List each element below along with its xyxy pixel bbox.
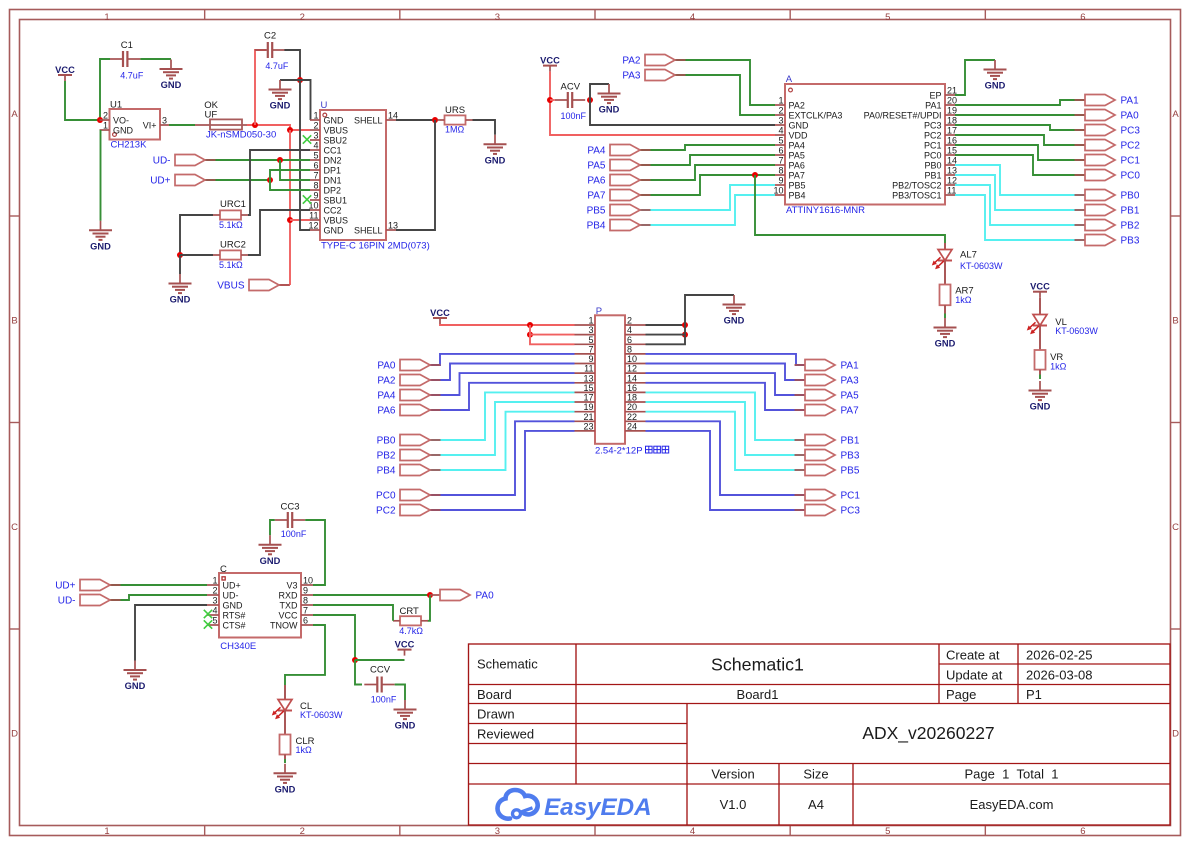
svg-text:RXD: RXD xyxy=(278,591,298,601)
A pin 13 PB1 xyxy=(924,166,957,181)
net port PC1 right of P xyxy=(795,490,861,502)
A pin 19 PA0/RESET#/UPDI xyxy=(864,106,957,121)
svg-text:PA5: PA5 xyxy=(587,161,606,172)
ground GND at C2 xyxy=(269,80,292,111)
wire GND node to ground xyxy=(280,79,300,81)
ground GND at CCV xyxy=(394,700,417,731)
power flag VCC at P header xyxy=(430,308,450,324)
C pin1 mark xyxy=(222,577,225,580)
svg-text:8: 8 xyxy=(627,344,632,354)
svg-text:PA2: PA2 xyxy=(377,376,396,387)
net port PB4 input xyxy=(587,220,651,232)
svg-text:PA1: PA1 xyxy=(925,101,941,111)
svg-text:P1: P1 xyxy=(1026,687,1042,702)
A pin 15 PC0 xyxy=(924,146,957,161)
svg-text:7: 7 xyxy=(313,171,318,181)
svg-text:17: 17 xyxy=(947,126,957,136)
P pin 6 xyxy=(625,335,646,345)
ground GND at U1 pin1 xyxy=(89,221,112,252)
svg-text:UD+: UD+ xyxy=(223,581,241,591)
svg-text:1: 1 xyxy=(104,826,109,837)
net port PB1 output xyxy=(1075,205,1140,217)
U1 pin 2 VO- xyxy=(100,111,130,126)
P pin 16 xyxy=(625,383,646,393)
wire PB4 to P pin 19 xyxy=(430,412,575,470)
power flag VCC at CH340E xyxy=(395,639,415,655)
svg-text:C: C xyxy=(1172,522,1179,533)
resistor URC2 5.1k xyxy=(213,240,248,270)
wire URS to GND xyxy=(473,120,496,135)
svg-text:17: 17 xyxy=(583,393,593,403)
net port UD- at CH340E xyxy=(58,595,121,607)
junction VCC at ACV xyxy=(547,97,553,103)
P pin 24 xyxy=(625,421,646,431)
svg-text:6: 6 xyxy=(627,335,632,345)
ground GND at CLR xyxy=(274,764,297,795)
svg-text:3: 3 xyxy=(212,596,217,606)
svg-text:2: 2 xyxy=(103,111,108,121)
led CL KT-0603W xyxy=(272,700,343,721)
wire SHELL node down to pin13 xyxy=(396,120,435,230)
svg-text:22: 22 xyxy=(627,412,637,422)
wire PA5 to A pin6 xyxy=(640,155,775,165)
svg-text:1kΩ: 1kΩ xyxy=(296,745,313,755)
svg-text:SBU2: SBU2 xyxy=(324,136,348,146)
resistor VR 1k xyxy=(1035,350,1067,371)
resistor URS 1M xyxy=(438,105,473,135)
wire C2 to GND node xyxy=(284,50,300,80)
wire VR gnd green bit xyxy=(1039,375,1041,380)
wire PC0 to P pin 21 xyxy=(430,421,575,495)
svg-text:1kΩ: 1kΩ xyxy=(955,295,972,305)
wire UD- to U pin5 DN2 xyxy=(205,159,310,161)
U pin 11 VBUS xyxy=(309,211,348,226)
svg-text:13: 13 xyxy=(947,166,957,176)
svg-text:CC2: CC2 xyxy=(324,206,342,216)
wire P pin2 to GND rail xyxy=(646,324,686,326)
svg-text:P: P xyxy=(596,306,602,317)
svg-text:A: A xyxy=(786,74,793,85)
ground GND at A EP xyxy=(984,60,1007,91)
svg-text:PC0: PC0 xyxy=(1121,171,1141,182)
wire PA2 to A pin1 xyxy=(675,60,775,105)
U pin 3 SBU2 xyxy=(310,131,347,146)
svg-text:PC0: PC0 xyxy=(924,151,942,161)
svg-text:VCC: VCC xyxy=(540,55,560,65)
wire PB5 to A pin9 xyxy=(640,185,775,210)
svg-text:PC1: PC1 xyxy=(841,491,861,502)
svg-text:PA0/RESET#/UPDI: PA0/RESET#/UPDI xyxy=(864,111,942,121)
svg-text:TYPE-C 16PIN 2MD(073): TYPE-C 16PIN 2MD(073) xyxy=(321,241,430,252)
U pin 12 GND xyxy=(308,221,344,236)
P pin 3 xyxy=(575,325,596,335)
svg-text:KT-0603W: KT-0603W xyxy=(300,710,343,720)
svg-text:GND: GND xyxy=(125,681,146,691)
svg-text:PC1: PC1 xyxy=(924,141,942,151)
P pin 1 xyxy=(575,316,596,326)
net port PB5 right of P xyxy=(795,465,860,477)
svg-text:PA4: PA4 xyxy=(587,146,606,157)
svg-text:ACV: ACV xyxy=(561,82,581,93)
svg-text:VCC: VCC xyxy=(430,308,450,318)
svg-text:GND: GND xyxy=(275,784,296,794)
P pin 8 xyxy=(625,344,646,354)
junction UD- branch xyxy=(277,157,283,163)
svg-text:U1: U1 xyxy=(110,100,122,111)
svg-text:ATTINY1616-MNR: ATTINY1616-MNR xyxy=(786,205,865,216)
svg-text:Version: Version xyxy=(711,767,754,782)
svg-text:6: 6 xyxy=(1080,12,1085,23)
svg-text:7: 7 xyxy=(588,344,593,354)
A pin 10 PB4 xyxy=(773,186,805,201)
svg-text:5: 5 xyxy=(212,616,217,626)
svg-text:2026-02-25: 2026-02-25 xyxy=(1026,648,1093,663)
svg-text:24: 24 xyxy=(627,421,637,431)
wire PA6 to P pin 13 xyxy=(430,383,575,410)
svg-text:PC3: PC3 xyxy=(841,506,861,517)
svg-text:EXTCLK/PA3: EXTCLK/PA3 xyxy=(789,111,843,121)
svg-text:PA6: PA6 xyxy=(789,161,805,171)
svg-text:4.7uF: 4.7uF xyxy=(120,71,144,81)
C pin 4 RTS# xyxy=(207,606,245,621)
svg-text:5: 5 xyxy=(885,826,890,837)
P pin 13 xyxy=(575,373,596,383)
wire U pin10 CC2 to URC2 xyxy=(248,210,310,255)
svg-text:2026-03-08: 2026-03-08 xyxy=(1026,668,1093,683)
svg-text:PB2: PB2 xyxy=(1121,221,1140,232)
svg-text:PC3: PC3 xyxy=(924,121,942,131)
svg-text:PA3: PA3 xyxy=(841,376,860,387)
P pin 22 xyxy=(625,412,646,422)
ground GND at C pin3 xyxy=(124,661,147,692)
ground GND at CC3 xyxy=(259,535,282,566)
net port PA3 input xyxy=(622,70,685,82)
svg-text:PB1: PB1 xyxy=(841,436,860,447)
wire GND node to A pin3 xyxy=(590,100,775,125)
svg-text:19: 19 xyxy=(947,106,957,116)
svg-text:PA7: PA7 xyxy=(587,191,606,202)
svg-text:100nF: 100nF xyxy=(371,695,397,705)
net port PC2 left of P xyxy=(376,505,440,517)
svg-text:B: B xyxy=(1172,315,1178,326)
resistor CRT 4.7k xyxy=(393,606,428,636)
svg-text:KT-0603W: KT-0603W xyxy=(1055,326,1098,336)
ground GND at AR7 xyxy=(934,318,957,349)
net port PA0 output xyxy=(1075,110,1140,122)
wire PA0 node down to CRT xyxy=(428,595,431,621)
svg-text:PA0: PA0 xyxy=(1121,111,1140,122)
svg-text:SBU1: SBU1 xyxy=(324,196,348,206)
wire C pin3 to GND xyxy=(135,605,207,661)
wire PC2 to P pin 23 xyxy=(430,431,575,510)
svg-text:6: 6 xyxy=(1080,826,1085,837)
svg-text:URS: URS xyxy=(445,105,465,116)
svg-text:19: 19 xyxy=(583,402,593,412)
svg-text:PC2: PC2 xyxy=(376,506,396,517)
wire P pin 16 to PB1 xyxy=(646,392,806,440)
svg-text:1: 1 xyxy=(778,96,783,106)
svg-text:5: 5 xyxy=(313,151,318,161)
junction SHELL node xyxy=(432,117,438,123)
wire node VCC up to C1 xyxy=(100,59,110,120)
C pin 5 CTS# xyxy=(207,616,246,631)
wire GND rail to Type-C pin12 xyxy=(300,80,310,230)
svg-text:GND: GND xyxy=(113,126,134,136)
svg-text:VCC: VCC xyxy=(1030,282,1050,292)
junction GND node near C2 xyxy=(297,77,303,83)
svg-text:5: 5 xyxy=(885,12,890,23)
wire AR7 gnd green bit xyxy=(944,314,946,319)
wire U pin4 CC1 to URC1 xyxy=(248,150,310,215)
wire A pin20 to PA1 xyxy=(955,100,1085,105)
svg-text:SHELL: SHELL xyxy=(354,226,383,236)
wire GND node down xyxy=(179,255,181,274)
svg-text:21: 21 xyxy=(583,412,593,422)
junction GND at P pin2 xyxy=(682,322,688,328)
svg-text:CRT: CRT xyxy=(400,606,420,617)
svg-text:GND: GND xyxy=(985,81,1006,91)
svg-text:6: 6 xyxy=(303,616,308,626)
U pin 13 SHELL xyxy=(354,221,398,236)
net port PB1 right of P xyxy=(795,435,860,447)
A pin 5 PA4 xyxy=(775,136,805,151)
junction RXD PA0 node xyxy=(427,592,433,598)
svg-text:PB5: PB5 xyxy=(789,181,806,191)
wire VL cathode to VR xyxy=(1039,326,1041,351)
wire A pin17 to PC2 xyxy=(955,135,1085,145)
svg-text:PA1: PA1 xyxy=(841,361,860,372)
svg-text:9: 9 xyxy=(313,191,318,201)
svg-text:PA5: PA5 xyxy=(789,151,805,161)
EasyEDA logo xyxy=(498,790,652,821)
svg-text:PB1: PB1 xyxy=(1121,206,1140,217)
svg-text:KT-0603W: KT-0603W xyxy=(960,261,1003,271)
svg-text:GND: GND xyxy=(324,116,345,126)
svg-text:EP: EP xyxy=(929,91,941,101)
wire A pin11 to PB3 xyxy=(955,195,1085,240)
wire UD+ to C pin1 xyxy=(110,584,207,586)
wire A pin19 to PA0 xyxy=(955,114,1085,116)
wire CC3 left to GND xyxy=(270,520,275,535)
net port VBUS output xyxy=(217,280,289,292)
net port PA5 input xyxy=(587,160,650,172)
svg-text:9: 9 xyxy=(303,586,308,596)
U pin 1 GND xyxy=(310,111,344,126)
wire CCV right to GND xyxy=(395,685,405,701)
svg-text:C2: C2 xyxy=(264,31,276,42)
wire C1 to GND xyxy=(140,58,171,60)
svg-text:GND: GND xyxy=(789,121,810,131)
svg-text:Page: Page xyxy=(946,687,976,702)
svg-text:2: 2 xyxy=(300,826,305,837)
wire U1 pin3 to fuse UF xyxy=(169,124,195,126)
A pin 4 VDD xyxy=(775,126,808,141)
svg-text:A: A xyxy=(1172,109,1179,120)
svg-text:V1.0: V1.0 xyxy=(720,797,747,812)
wire TXD to CRT xyxy=(313,605,393,621)
svg-text:CC1: CC1 xyxy=(324,146,342,156)
A pin 14 PB0 xyxy=(924,156,957,171)
wire P pin 10 to PA3 xyxy=(646,364,806,381)
svg-text:GND: GND xyxy=(270,101,291,111)
svg-text:A4: A4 xyxy=(808,797,824,812)
svg-text:1: 1 xyxy=(212,576,217,586)
wire A pin14 to PB0 xyxy=(955,165,1085,195)
A pin 6 PA5 xyxy=(775,146,805,161)
A pin 17 PC2 xyxy=(924,126,957,141)
P value 2.54-2x12P CJK label xyxy=(595,446,669,457)
svg-text:2: 2 xyxy=(627,316,632,326)
svg-text:1: 1 xyxy=(588,316,593,326)
wire VBUS rail to pin11 xyxy=(290,219,310,221)
svg-text:Update at: Update at xyxy=(946,668,1003,683)
net port PA7 right of P xyxy=(795,405,860,417)
wire VR to GND xyxy=(1039,370,1041,375)
svg-text:PA2: PA2 xyxy=(622,56,641,67)
svg-text:URC1: URC1 xyxy=(220,199,246,210)
svg-text:8: 8 xyxy=(778,166,783,176)
U pin 4 CC1 xyxy=(310,141,342,156)
svg-text:PC0: PC0 xyxy=(376,491,396,502)
wire VCC to P pin1 xyxy=(440,324,575,325)
svg-text:GND: GND xyxy=(1030,402,1051,412)
svg-text:8: 8 xyxy=(303,596,308,606)
svg-text:Page 1 Total 1: Page 1 Total 1 xyxy=(965,767,1059,782)
wire VCC node down to CCV xyxy=(355,660,362,685)
svg-text:4: 4 xyxy=(690,12,695,23)
svg-text:10: 10 xyxy=(627,354,637,364)
C pin 8 TXD xyxy=(280,596,314,611)
junction VBUS at fuse output xyxy=(252,122,258,128)
P pin 12 xyxy=(625,364,646,374)
ground GND at URC resistors xyxy=(169,274,192,305)
ground GND at ACV xyxy=(598,84,621,115)
net port PB3 output xyxy=(1075,235,1140,247)
wire PA7 junction down to AL7 xyxy=(755,175,945,243)
svg-text:ADX_v20260227: ADX_v20260227 xyxy=(862,723,994,744)
svg-text:3: 3 xyxy=(495,826,500,837)
no-connect on C pin4 RTS# xyxy=(204,610,212,618)
wire CC3 right to V3 xyxy=(305,520,325,585)
wire U1 pin1 to GND xyxy=(100,130,102,221)
svg-text:11: 11 xyxy=(584,364,593,374)
C pin 1 UD+ xyxy=(207,576,241,591)
junction VCC at P pin3 xyxy=(527,332,533,338)
U pin 9 SBU1 xyxy=(310,191,347,206)
svg-text:C1: C1 xyxy=(121,40,133,51)
A pin 3 GND xyxy=(775,116,809,131)
wire A pin12 to PB2 xyxy=(955,185,1085,225)
title block grid xyxy=(469,644,1171,825)
svg-text:4: 4 xyxy=(690,826,695,837)
svg-text:PA1: PA1 xyxy=(1121,96,1140,107)
resistor URC1 5.1k xyxy=(213,199,248,230)
svg-text:PB2/TOSC2: PB2/TOSC2 xyxy=(892,181,941,191)
C pin 2 UD- xyxy=(207,586,239,601)
svg-text:TNOW: TNOW xyxy=(270,621,298,631)
svg-text:20: 20 xyxy=(627,402,637,412)
svg-text:RTS#: RTS# xyxy=(223,611,246,621)
svg-text:13: 13 xyxy=(388,221,398,231)
svg-text:PA2: PA2 xyxy=(789,101,805,111)
capacitor CC3 100nF xyxy=(275,502,307,540)
wire P pin 8 to PA1 xyxy=(646,354,806,365)
no-connect on U pin 9 xyxy=(303,195,311,203)
svg-text:1MΩ: 1MΩ xyxy=(445,125,465,135)
svg-text:15: 15 xyxy=(947,146,957,156)
svg-text:GND: GND xyxy=(90,241,111,251)
svg-text:1: 1 xyxy=(104,12,109,23)
C pin 7 VCC xyxy=(278,606,313,621)
svg-text:D: D xyxy=(1172,728,1179,739)
net port PB0 output xyxy=(1075,190,1140,202)
P pin 5 xyxy=(575,335,596,345)
P pin 23 xyxy=(575,421,596,431)
ground GND at C1 xyxy=(160,60,183,91)
net port PA0 at CH340E xyxy=(430,590,495,602)
net port PA5 right of P xyxy=(795,390,860,402)
net port UD+ at CH340E xyxy=(55,580,120,592)
svg-text:3: 3 xyxy=(495,12,500,23)
svg-text:5.1kΩ: 5.1kΩ xyxy=(219,260,243,270)
svg-text:CH340E: CH340E xyxy=(220,641,256,652)
svg-text:15: 15 xyxy=(583,383,593,393)
wire GND branch P pin4 xyxy=(646,334,686,336)
svg-text:PB0: PB0 xyxy=(377,436,396,447)
wire A pin21 EP to GND xyxy=(955,60,995,95)
svg-text:UD-: UD- xyxy=(223,591,239,601)
net port PB0 left of P xyxy=(377,435,441,447)
wire UD+ to junction xyxy=(205,179,270,181)
svg-text:12: 12 xyxy=(947,176,957,186)
svg-text:UD+: UD+ xyxy=(150,176,170,187)
svg-text:9: 9 xyxy=(778,176,783,186)
U pin 6 DP1 xyxy=(310,161,341,176)
P pin 20 xyxy=(625,402,646,412)
net port PB3 right of P xyxy=(795,450,860,462)
resistor CLR 1k xyxy=(280,735,315,756)
svg-text:2: 2 xyxy=(212,586,217,596)
C pin 3 GND xyxy=(207,596,243,611)
wire PA6 to A pin7 xyxy=(640,165,775,180)
svg-text:EasyEDA: EasyEDA xyxy=(544,794,652,821)
svg-text:23: 23 xyxy=(583,421,593,431)
svg-text:1: 1 xyxy=(313,111,318,121)
connector U TYPE-C body xyxy=(320,110,386,240)
wire AR7 to GND xyxy=(944,305,946,313)
svg-text:PB3: PB3 xyxy=(1121,236,1140,247)
svg-text:C: C xyxy=(220,564,227,575)
svg-text:5: 5 xyxy=(778,136,783,146)
net port PA2 input xyxy=(622,55,685,67)
junction GND at P pin4 xyxy=(682,332,688,338)
svg-text:PB3/TOSC1: PB3/TOSC1 xyxy=(892,191,941,201)
A pin 1 PA2 xyxy=(775,96,805,111)
svg-text:PB5: PB5 xyxy=(587,206,606,217)
net port PA3 right of P xyxy=(795,375,860,387)
wire P pin 14 to PA7 xyxy=(646,383,806,410)
svg-text:PA7: PA7 xyxy=(841,406,860,417)
wire VCC node to VCC flag xyxy=(355,659,405,661)
P pin 21 xyxy=(575,412,596,422)
net port PB4 left of P xyxy=(377,465,441,477)
wire UD+ branch to U pin8 DP2 xyxy=(270,180,310,190)
U1 pin 3 VI+ xyxy=(160,116,170,126)
wire A pin16 to PC1 xyxy=(955,145,1085,160)
svg-text:14: 14 xyxy=(388,111,398,121)
svg-text:PB1: PB1 xyxy=(924,171,941,181)
usb-uart C CH340E body xyxy=(219,573,301,638)
